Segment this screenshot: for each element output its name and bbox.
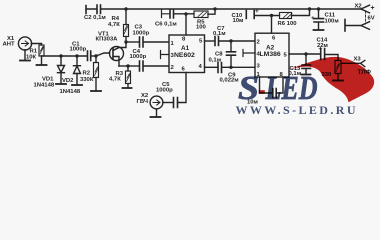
node VD1 (59, 54, 62, 57)
node source (126, 64, 129, 67)
resistor R1 (39, 45, 44, 56)
svg-text:LED: LED (265, 70, 318, 107)
node R6 (308, 7, 311, 10)
ground (56, 83, 66, 85)
diode VD2 (76, 56, 78, 66)
ground (20, 60, 30, 62)
pin numbers and IC names (171, 35, 288, 78)
op-amp U1 A1 NE602 box (169, 35, 205, 73)
resistor R6 (280, 13, 292, 19)
ground (314, 29, 324, 31)
resistor R2 (95, 56, 97, 63)
node R5 (213, 7, 216, 10)
op-amp U2 A2 LM386 box (255, 33, 289, 77)
capacitor C13 (305, 54, 307, 65)
wire pin6 riser (271, 16, 273, 34)
wire pin3 ground (161, 51, 170, 59)
node pin6 (270, 14, 273, 17)
capacitor C5 (174, 98, 178, 108)
capacitor C7 (205, 40, 215, 42)
connector X2 HF gen (150, 96, 163, 109)
capacitor C6 (170, 10, 174, 19)
wire antenna bus (42, 55, 88, 57)
connector X1 (18, 37, 31, 50)
resistor R4 (125, 9, 127, 25)
transistor VT1 (110, 47, 124, 61)
diode VD1 (60, 56, 62, 66)
capacitor C14 (321, 49, 325, 60)
node C8 bottom (229, 66, 232, 69)
ground (72, 84, 82, 86)
node rail R4 (124, 7, 127, 10)
wire pin8 riser (185, 14, 187, 35)
capacitor C9 (205, 66, 218, 68)
wire pin6 (178, 73, 186, 103)
ground (151, 116, 161, 118)
ground (37, 64, 47, 66)
svg-text:S: S (238, 70, 259, 107)
wire pin5 out (289, 53, 320, 55)
resistor hatch marks (40, 12, 340, 82)
capacitor C3 (126, 41, 139, 43)
ground (333, 80, 343, 82)
node C8 top (229, 39, 232, 42)
ground (91, 90, 101, 92)
node +6V top rail (101, 8, 361, 10)
resistor R3 (127, 66, 129, 71)
ground (162, 10, 170, 18)
red swoosh (289, 57, 375, 102)
wire pin4 ground (243, 50, 255, 57)
resistor R7 330 (335, 61, 341, 74)
node pin8 (184, 12, 187, 15)
node gate (94, 54, 97, 57)
capacitor C10 (246, 11, 254, 19)
ground (86, 6, 97, 14)
node out (304, 52, 307, 55)
resistor R5 (194, 11, 208, 18)
node VD2 (75, 54, 78, 57)
watermark S-LED (0, 0, 380, 121)
svg-text:WWW.S-LED.RU: WWW.S-LED.RU (236, 103, 356, 117)
capacitor C11 (318, 9, 320, 18)
capacitor C12 (260, 77, 284, 93)
connector X2 power (361, 5, 370, 13)
wire X3 (341, 60, 365, 66)
node drain (124, 40, 127, 43)
capacitor C4 (128, 65, 139, 67)
ground (302, 74, 311, 76)
capacitor C1 (88, 51, 91, 61)
capacitor C8 (230, 41, 232, 52)
capacitor C2 (97, 5, 101, 14)
ground (123, 87, 132, 89)
wire source (119, 65, 128, 67)
